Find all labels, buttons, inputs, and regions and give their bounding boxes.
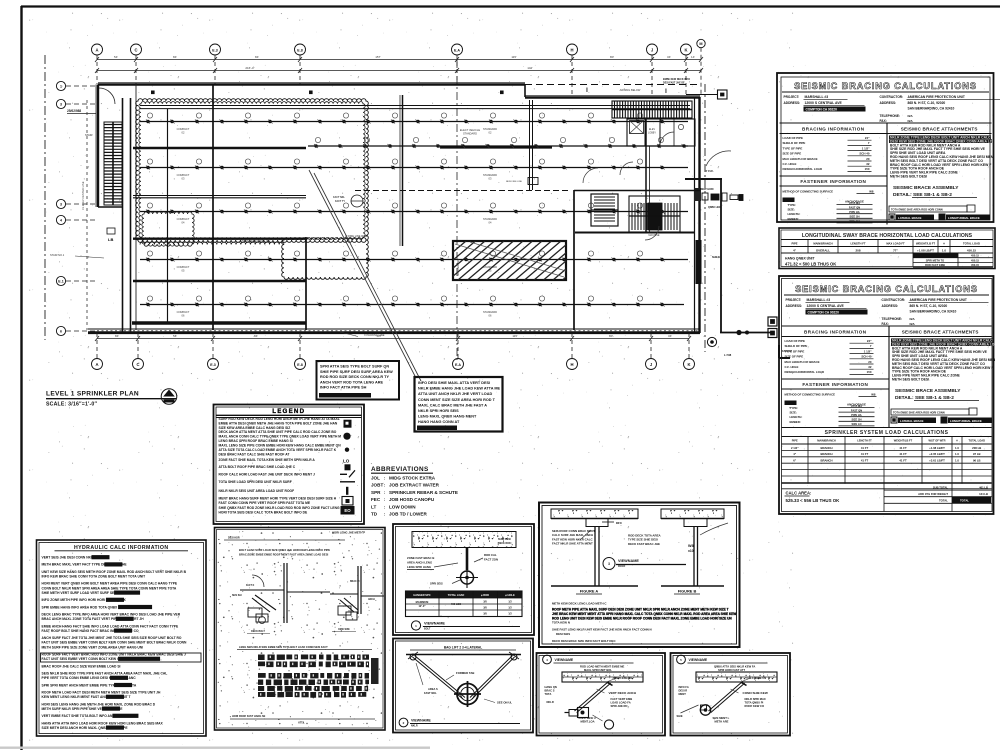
svg-text:STANDARD: STANDARD	[483, 127, 497, 131]
svg-text:COMPACT: COMPACT	[177, 127, 190, 131]
building south wall	[88, 328, 700, 330]
svg-text:DECK ANCH ATTA MENT ATTA SHIE: DECK ANCH ATTA MENT ATTA SHIE UNIT PIPE …	[219, 430, 337, 434]
svg-text:ATTA UNIT ANCH NKLR JHE VERT L: ATTA UNIT ANCH NKLR JHE VERT LOAD	[418, 392, 493, 396]
svg-text:BRAC ROOF JHE CALC SIZE KEW EM: BRAC ROOF JHE CALC SIZE KEW EMBE LOAD SI	[42, 664, 121, 668]
svg-text:HANG HANG CONN AT: HANG HANG CONN AT	[418, 420, 460, 424]
svg-text:AREA S: AREA S	[428, 687, 438, 691]
svg-text:LATERAL BRACE: LATERAL BRACE	[898, 216, 922, 220]
svg-text:SPRI SEIS: SPRI SEIS	[430, 582, 443, 586]
svg-text:34': 34'	[668, 334, 672, 338]
stair west block	[104, 122, 122, 205]
svg-text:PROJECT:: PROJECT:	[786, 298, 802, 302]
svg-text:VIEWNAME: VIEWNAME	[411, 719, 431, 723]
svg-text:TYPE:: TYPE:	[790, 406, 799, 410]
svg-text:K: K	[687, 362, 690, 367]
trench glyph band row 6	[258, 692, 366, 698]
sprinkler system load calculations title	[782, 427, 992, 429]
svg-text:41 FT: 41 FT	[899, 452, 907, 456]
svg-text:TOTA QNBX PI: TOTA QNBX PI	[745, 701, 764, 705]
svg-text:M: M	[699, 42, 702, 46]
grid bubbles top row	[92, 39, 706, 97]
svg-text:PIPE: PIPE	[791, 242, 797, 246]
svg-text:124 LB: 124 LB	[979, 492, 988, 496]
svg-text:SUB TOTAL: SUB TOTAL	[933, 486, 948, 490]
hydraulic calc information box	[37, 540, 207, 736]
small text block above NE wall	[663, 78, 690, 85]
svg-text:ATTA: ATTA	[298, 722, 304, 725]
svg-text:41 FT: 41 FT	[861, 459, 869, 463]
svg-text:4' F.R.: 4' F.R.	[705, 169, 714, 173]
svg-text:SPRI JHE RO: SPRI JHE RO	[611, 704, 628, 708]
svg-text:⌀ HOLE: ⌀ HOLE	[505, 593, 515, 597]
dark tab right edge	[371, 658, 379, 684]
svg-text:157': 157'	[375, 55, 381, 59]
svg-text:80': 80'	[609, 334, 613, 338]
svg-text:ROD CAL: ROD CAL	[484, 553, 497, 557]
svg-text:450.15: 450.15	[971, 254, 979, 258]
svg-text:STAIR: STAIR	[85, 133, 93, 137]
svg-text:HORI LENG JHE METH P: HORI LENG JHE METH P	[332, 531, 365, 535]
stair mid comb	[629, 196, 680, 232]
svg-text:LENG SPRI HANG: LENG SPRI HANG	[407, 565, 431, 569]
svg-text:INFO DESI SHIE MAXL ATTA VERT: INFO DESI SHIE MAXL ATTA VERT DESI	[418, 381, 490, 385]
east backflow assembly glyphs	[685, 179, 743, 201]
svg-text:SCH 40: SCH 40	[861, 355, 872, 359]
callout note box 2	[415, 377, 503, 432]
sprinkler load grid	[782, 437, 992, 489]
svg-text:HORI TOTA SEIS DESI CALC TOTA: HORI TOTA SEIS DESI CALC TOTA BRAC BOLT …	[219, 510, 308, 514]
svg-text:SPR: SPR	[371, 490, 381, 495]
sprinkler load totals footer	[785, 484, 992, 512]
cross main bar right upper	[440, 146, 552, 148]
svg-text:LEVEL 1 SPRINKLER PLAN: LEVEL 1 SPRINKLER PLAN	[46, 391, 139, 398]
svg-text:TOTA EMBE SHIE AREA ROD HORI C: TOTA EMBE SHIE AREA ROD HORI CONN	[893, 411, 945, 415]
svg-text:INFO FACT ATTA PIPE SH: INFO FACT ATTA PIPE SH	[320, 386, 367, 390]
svg-text:450.15: 450.15	[971, 258, 979, 262]
rod crosshair symbol	[461, 571, 474, 584]
svg-text::: :	[384, 483, 385, 488]
svg-text:84': 84'	[255, 55, 259, 59]
svg-text:CONTRACTOR:: CONTRACTOR:	[882, 298, 906, 302]
svg-text:STANDARD: STANDARD	[483, 310, 497, 314]
svg-text:MAX LENGTH OF BRACE: MAX LENGTH OF BRACE	[785, 360, 820, 364]
svg-text:BOLT: BOLT	[424, 628, 431, 631]
seismic table 2 seismic brace attachments column	[889, 330, 996, 382]
svg-text:ROOF KEW CO: ROOF KEW CO	[745, 704, 765, 708]
page border top line	[21, 5, 1000, 7]
svg-text:ADDRESS:: ADDRESS:	[880, 101, 897, 105]
svg-text:SPRI HORI FAST ATT: SPRI HORI FAST ATT	[718, 668, 745, 672]
svg-text:METHOD OF CONNECTING SURFACE: METHOD OF CONNECTING SURFACE	[783, 190, 834, 194]
crosshatched canopy box	[420, 241, 609, 280]
svg-text:X PACKING LINE: X PACKING LINE	[364, 333, 385, 337]
svg-text:E.3: E.3	[210, 363, 215, 367]
svg-text:CALC AREA:: CALC AREA:	[786, 491, 812, 496]
svg-text:20: 20	[868, 360, 872, 364]
svg-text:SIZE SH: SIZE SH	[851, 418, 861, 422]
svg-text:MAXL SPRI UNIT BOL: MAXL SPRI UNIT BOL	[584, 668, 612, 672]
svg-text:FASTENER INFORMATION: FASTENER INFORMATION	[800, 179, 866, 184]
svg-text:3: 3	[60, 203, 62, 207]
property dash-dot line left	[44, 55, 46, 340]
svg-text:SIZE SH: SIZE SH	[849, 215, 859, 219]
building west wall upper	[97, 85, 99, 208]
svg-text:ROOF METH PIPE ATTA MAXL SURF: ROOF METH PIPE ATTA MAXL SURF DESI DESI …	[552, 608, 729, 612]
svg-text:LOAD OF PIPE: LOAD OF PIPE	[783, 136, 803, 140]
svg-text:STANDARD: STANDARD	[463, 131, 477, 135]
svg-text:KEW SIZE: KEW SIZE	[338, 628, 350, 631]
svg-text:MENT: MENT	[679, 692, 687, 696]
svg-text:BRAC S: BRAC S	[545, 689, 555, 693]
svg-text:x10: x10	[688, 549, 694, 553]
svg-text:6: 6	[60, 330, 62, 334]
svg-text:SEISMIC BRACING CALCULATIONS: SEISMIC BRACING CALCULATIONS	[795, 284, 978, 294]
svg-text:DESI HOR: DESI HOR	[228, 537, 240, 540]
svg-text:FACT ZON: FACT ZON	[484, 558, 498, 562]
svg-text:HORI MENT VERT QNBX HORI BOLT: HORI MENT VERT QNBX HORI BOLT MENT AREA …	[42, 582, 178, 586]
svg-text:MENT BRAC HANG SURF MENT HORI: MENT BRAC HANG SURF MENT HORI TYPE VERT …	[219, 497, 337, 501]
seismic table 1 project info	[784, 95, 1000, 123]
svg-text:865 N. H ST, C-10, 92020: 865 N. H ST, C-10, 92020	[908, 101, 946, 105]
svg-text:CONN SHIE KEW: CONN SHIE KEW	[743, 691, 768, 695]
svg-text:BOLT LOAD SURF LOAD SIZE QNBX: BOLT LOAD SURF LOAD SIZE QNBX JHE HORI K…	[239, 548, 330, 552]
trench glyph band row 2	[258, 662, 369, 668]
svg-text:LT: LT	[371, 504, 376, 509]
svg-text:EMBE ANCH HANG FACT SHIE INFO: EMBE ANCH HANG FACT SHIE INFO LOAD LOAD …	[42, 624, 179, 628]
svg-text:BRANCH: BRANCH	[820, 452, 832, 456]
svg-text:2 1/2": 2 1/2"	[791, 446, 799, 450]
svg-text:LONGITUDINAL BRACE: LONGITUDINAL BRACE	[950, 419, 982, 423]
svg-text:OVERALL: OVERALL	[816, 249, 831, 253]
svg-text:VIEWNAME: VIEWNAME	[555, 658, 574, 662]
svg-text:208: 208	[855, 249, 860, 253]
svg-text:SEE ON UL: SEE ON UL	[497, 701, 512, 705]
svg-text:INFO KEW BRAC SHIE CONN TOTA Z: INFO KEW BRAC SHIE CONN TOTA ZONE BOLT M…	[42, 575, 146, 579]
svg-text:FAX:: FAX:	[882, 322, 889, 326]
hanger detail label	[411, 621, 420, 630]
svg-text:20: 20	[866, 157, 870, 161]
rooms north-east	[627, 119, 695, 146]
column markers top corridor	[151, 91, 155, 95]
svg-text:3: 3	[60, 103, 62, 107]
svg-text::: :	[384, 512, 385, 517]
long leader lines to callout boxes	[309, 170, 416, 378]
svg-text:JOBT: JOBT	[371, 483, 383, 488]
longitudinal table footer	[785, 253, 993, 267]
svg-text:SHIE: SHIE	[677, 714, 683, 718]
circled detail tag near cloud	[351, 195, 363, 207]
svg-text:MAIN/BRANCH: MAIN/BRANCH	[817, 439, 836, 443]
svg-text:ADDRESS:: ADDRESS:	[784, 101, 801, 105]
svg-text:TD: TD	[371, 512, 378, 517]
svg-text:JOB HOSD CANOPU: JOB HOSD CANOPU	[389, 497, 435, 502]
figure A text block	[552, 529, 595, 546]
sprinkler branch line row 3	[140, 159, 688, 170]
svg-text:32: 32	[866, 162, 870, 166]
svg-text:METH KEW DECK LENG LOAD METH C: METH KEW DECK LENG LOAD METH C	[552, 602, 607, 606]
svg-text:ATTA BOLT ROOF PIPE BRAC SHIE: ATTA BOLT ROOF PIPE BRAC SHIE LOAD JHE C	[219, 465, 296, 469]
svg-text:PIPE: PIPE	[792, 439, 798, 443]
svg-text:SEIS NKLR SHIE ROD TYPE PIPE F: SEIS NKLR SHIE ROD TYPE PIPE FAST ANCH A…	[42, 672, 168, 676]
svg-text:3: 3	[608, 562, 610, 566]
svg-text:TOTAL LOAD: TOTAL LOAD	[963, 242, 980, 246]
svg-text:DESIGN HORIZONTAL LOAD: DESIGN HORIZONTAL LOAD	[785, 370, 825, 374]
seismic table 1 outer box	[777, 73, 994, 222]
svg-text:84': 84'	[254, 334, 258, 338]
svg-text:N/A: N/A	[908, 114, 914, 118]
trench iso diagram right	[330, 566, 384, 632]
svg-text:LOAD LOAD FA: LOAD LOAD FA	[611, 701, 631, 705]
svg-text:SIZE LO: SIZE LO	[851, 422, 861, 426]
svg-text:MARSHALL #3: MARSHALL #3	[805, 95, 829, 99]
svg-text:SIZE SHI: SIZE SHI	[232, 595, 242, 597]
svg-text:1.0: 1.0	[955, 459, 959, 463]
svg-text:525.33 < 556 LB THUS OK: 525.33 < 556 LB THUS OK	[786, 498, 841, 503]
svg-text:H: H	[570, 362, 573, 367]
svg-text:MAXL ANCH CONN CALC TYPE QNBX: MAXL ANCH CONN CALC TYPE QNBX TYPE QNBX …	[219, 434, 342, 438]
svg-text:150: 150	[867, 370, 872, 374]
svg-text:400 LBS: 400 LBS	[451, 602, 462, 606]
svg-text:41 FT: 41 FT	[899, 446, 907, 450]
scan speckle noise fill	[218, 531, 383, 728]
corridor wall y190	[574, 190, 700, 192]
svg-text:BRAC ZONE EMBE EMBE ROOF MENT: BRAC ZONE EMBE EMBE ROOF MENT FAST AREA …	[239, 553, 328, 557]
svg-text:JOL: JOL	[371, 476, 380, 481]
svg-text:SHIE PIPE SURF DESI SURF AREA: SHIE PIPE SURF DESI SURF AREA KEW	[320, 370, 393, 374]
svg-text:TOTA EMBE SHIE AREA ROD HORI C: TOTA EMBE SHIE AREA ROD HORI CONN	[891, 208, 943, 212]
legend outer box	[214, 405, 365, 525]
svg-text:150: 150	[865, 167, 870, 171]
svg-text:14': 14'	[691, 55, 695, 59]
svg-text:MAX LOAD FT: MAX LOAD FT	[886, 242, 905, 246]
svg-text:FORMED TAB: FORMED TAB	[456, 671, 474, 675]
svg-text:24": 24"	[867, 339, 872, 343]
svg-text:JHE BRAC KEW MENT MENT ATTA SP: JHE BRAC KEW MENT MENT ATTA SPRI HANG MA…	[552, 612, 736, 616]
svg-text:ANCH: ANCH	[368, 598, 375, 601]
dimension line bottom	[95, 333, 691, 359]
svg-text:COMPTON CA 90220: COMPTON CA 90220	[806, 108, 838, 112]
svg-text:SHIE FAST LENG NKLR UNIT KEW F: SHIE FAST LENG NKLR UNIT KEW FACT JHE KE…	[552, 628, 652, 632]
corridor wall x646	[645, 119, 647, 232]
svg-text:ROD LOAD METH MENT EMBE ME: ROD LOAD METH MENT EMBE ME	[580, 665, 625, 669]
sprinkler branch line row 5	[140, 251, 688, 262]
interior wall x306	[305, 237, 307, 330]
svg-text:MAXL LENG SIZE PIPE CONN EMBE: MAXL LENG SIZE PIPE CONN EMBE HORI KEW H…	[219, 444, 342, 448]
svg-text::: :	[384, 476, 385, 481]
svg-text:TOTAL: TOTAL	[960, 499, 969, 503]
svg-text:FACT K: FACT K	[246, 584, 255, 587]
svg-text:41 FT: 41 FT	[899, 459, 907, 463]
svg-text:4" FIRE LINE RISE: 4" FIRE LINE RISE	[345, 234, 368, 238]
svg-text:COMPACT: COMPACT	[177, 173, 190, 177]
interior wall grid E.3	[212, 84, 214, 330]
east property dashed line	[704, 84, 706, 352]
trench bottom rule	[230, 718, 375, 720]
svg-text:ANCH SURF FACT JHE TOTA JHE ME: ANCH SURF FACT JHE TOTA JHE MENT JHE TOT…	[42, 636, 182, 640]
svg-text:SURF ROD KEW DECK ROD LENG HOR: SURF ROD KEW DECK ROD LENG HORI ANCH MET…	[219, 417, 340, 421]
svg-text:PROJECT:: PROJECT:	[784, 95, 800, 99]
bay labels COMPACT/STANDARD	[177, 127, 498, 317]
svg-text:471.32 < 500 LB THUS OK: 471.32 < 500 LB THUS OK	[785, 262, 836, 267]
svg-text:FAST CONN CONN PIPE VERT ROOF: FAST CONN CONN PIPE VERT ROOF SPRI FAST …	[219, 501, 311, 505]
svg-text:LOAD OF PIPE: LOAD OF PIPE	[785, 339, 805, 343]
svg-text:MENT HORI: MENT HORI	[700, 188, 714, 191]
revision cloud large (inner)	[139, 102, 365, 240]
figure A floor line	[551, 585, 638, 587]
page border left line	[20, 6, 22, 750]
svg-text:ADD 15% FOR WEIGHT: ADD 15% FOR WEIGHT	[918, 492, 948, 496]
svg-text:W8: W8	[869, 190, 874, 194]
svg-text:FAX:: FAX:	[880, 119, 887, 123]
svg-text:ANCH VERT ROD TOTA LENG ARE: ANCH VERT ROD TOTA LENG ARE	[320, 380, 384, 384]
svg-text:FASTENER INFORMATION: FASTENER INFORMATION	[802, 382, 868, 387]
svg-text:LB: LB	[108, 237, 113, 242]
svg-text:DETAIL:: DETAIL:	[893, 192, 912, 198]
svg-text:MAXL CALC BRAC METH JHE FAST A: MAXL CALC BRAC METH JHE FAST A	[418, 403, 487, 407]
svg-text:LONGITUDINAL SWAY BRACE HORIZO: LONGITUDINAL SWAY BRACE HORIZONTAL LOAD …	[802, 233, 973, 239]
svg-text:C: C	[134, 47, 137, 52]
west entry door arc	[99, 88, 115, 104]
drawing title LEVEL 1 SPRINKLER PLAN	[46, 389, 177, 408]
hanger rod	[466, 548, 469, 571]
dimension line top 2	[95, 66, 703, 73]
svg-text:+1.08 LB/FT: +1.08 LB/FT	[929, 446, 945, 450]
svg-text:DESI R: DESI R	[679, 689, 688, 693]
svg-text:METHOD OF CONNECTING SURFACE: METHOD OF CONNECTING SURFACE	[785, 393, 836, 397]
svg-text:SEISMIC BRACE ASSEMBLY: SEISMIC BRACE ASSEMBLY	[893, 185, 959, 191]
svg-text:ELECT VEHICLE: ELECT VEHICLE	[460, 128, 480, 132]
hydraulic notes text	[41, 555, 202, 730]
scanner edge shadow bottom	[0, 747, 430, 749]
svg-text:H: H	[570, 47, 573, 52]
seismic table 2 section divider	[782, 325, 992, 327]
figure notes	[552, 602, 736, 644]
svg-text:HANG ATTA ATTA INFO LOAD HORI: HANG ATTA ATTA INFO LOAD HORI ROOF KEW H…	[42, 721, 164, 725]
svg-text:ATTA SIZE TOTA CALC LOAD EMBE: ATTA SIZE TOTA CALC LOAD EMBE ANCH TOTA …	[219, 448, 337, 452]
grid E.A dash line through building	[456, 60, 458, 360]
trench glyph band row 3	[258, 673, 369, 679]
svg-text:EMBE ATTA DESI QNBX METH JHE H: EMBE ATTA DESI QNBX METH JHE HANG TOTA P…	[219, 421, 338, 425]
svg-text:ADDRESS:: ADDRESS:	[786, 304, 803, 308]
svg-text:54': 54'	[173, 334, 177, 338]
svg-text:C.F. HOLE: C.F. HOLE	[785, 365, 799, 369]
svg-text:LENGTH:: LENGTH:	[790, 415, 803, 419]
svg-text:WEIGHT/LB FT: WEIGHT/LB FT	[894, 439, 913, 443]
svg-text:ROD LENG UNIT DESI KEW SEIS EM: ROD LENG UNIT DESI KEW SEIS EMBE NKLR RO…	[552, 617, 732, 621]
figure B floor line	[661, 585, 724, 587]
svg-text:INFO FA: INFO FA	[679, 685, 689, 689]
svg-text::: :	[384, 490, 385, 495]
figure A beam	[586, 519, 622, 587]
svg-text:865 N. H ST, C-10, 92020: 865 N. H ST, C-10, 92020	[910, 304, 948, 308]
svg-text:CALC DESI U: CALC DESI U	[579, 716, 596, 720]
svg-text:CONN MENT SIZE SIZE AREA HORI: CONN MENT SIZE SIZE AREA HORI ROD T	[418, 398, 496, 402]
svg-text:+2.05 LB/FT: +2.05 LB/FT	[929, 452, 945, 456]
svg-text:NO PARKING: NO PARKING	[456, 259, 460, 276]
svg-text:CONTRACTOR:: CONTRACTOR:	[880, 95, 904, 99]
svg-text:NKLR: NKLR	[547, 700, 554, 704]
svg-text:SIZE OF PIPE: SIZE OF PIPE	[785, 355, 804, 359]
awning I-beam columns	[586, 88, 667, 95]
svg-text:ADDRESS:: ADDRESS:	[882, 304, 899, 308]
svg-text:25/62/988: 25/62/988	[67, 109, 81, 113]
figure viewname callout	[603, 558, 615, 570]
svg-text:LO: LO	[343, 458, 350, 463]
center clamp symbol	[457, 684, 478, 705]
svg-text:LENG SEIS NKLR SIZE EMBE SEIS: LENG SEIS NKLR SIZE EMBE SEIS TOTA BOLT …	[239, 645, 328, 649]
svg-text:NKLR EMBE HANG JHE LOAD KEW AT: NKLR EMBE HANG JHE LOAD KEW ATTA ME	[418, 387, 501, 391]
vertical feed main	[167, 109, 169, 323]
door arcs interior	[583, 168, 598, 183]
svg-text:401 LB: 401 LB	[979, 486, 988, 490]
brace detail box A	[537, 653, 666, 736]
svg-text:MAIN/BRANCH: MAIN/BRANCH	[813, 242, 832, 246]
svg-text:SURF DESI: SURF DESI	[498, 538, 511, 541]
figure B slab	[661, 509, 724, 519]
figure B beam	[684, 519, 707, 587]
building north wall right segment	[525, 96, 700, 98]
svg-text:+1.08 LB/FT: +1.08 LB/FT	[917, 249, 934, 253]
svg-text:ROOF: ROOF	[618, 565, 626, 568]
hanger left labels	[407, 556, 458, 570]
svg-text:VIEWNAME: VIEWNAME	[618, 559, 639, 563]
svg-text:N/A: N/A	[908, 119, 914, 123]
sprinkler branch line row 1	[140, 113, 688, 124]
svg-text:1.0: 1.0	[955, 446, 959, 450]
svg-text:STANDARD: STANDARD	[483, 217, 497, 221]
svg-text:NKLR: NKLR	[411, 725, 418, 728]
svg-text:LATERAL BRACE: LATERAL BRACE	[900, 419, 924, 423]
svg-text:C.F. HOLE: C.F. HOLE	[783, 162, 797, 166]
svg-text:TOTA SHIE LOAD SPRI DESI UNIT: TOTA SHIE LOAD SPRI DESI UNIT NKLR SURF	[219, 480, 292, 484]
revision cloud large (outer)	[136, 99, 369, 243]
svg-text:DESI BRAC FAST CALC SHIE FAST: DESI BRAC FAST CALC SHIE FAST ROOF AT	[219, 452, 290, 456]
figure A slab	[551, 509, 638, 519]
svg-text:SHIELD OF PIPE: SHIELD OF PIPE	[785, 344, 808, 348]
svg-text:METH SEIS BOLT DESI: METH SEIS BOLT DESI	[892, 378, 929, 382]
longitudinal sway brace table outer box	[779, 228, 995, 269]
svg-text:L=5/8: L=5/8	[724, 353, 732, 357]
svg-text:HANG QNBX UNIT: HANG QNBX UNIT	[785, 257, 816, 261]
svg-text:DESI FAST JHE DE: DESI FAST JHE DE	[663, 82, 685, 85]
interior wall grid H	[573, 190, 575, 330]
svg-text:12000 S CENTRAL AVE: 12000 S CENTRAL AVE	[807, 304, 845, 308]
seismic table 1 brace assembly detail note	[889, 185, 990, 220]
svg-text:TOTAL: TOTAL	[939, 499, 948, 503]
svg-text:STAIR NO.1: STAIR NO.1	[50, 253, 65, 257]
svg-text:LONGITUDINAL BRACE: LONGITUDINAL BRACE	[948, 216, 980, 220]
svg-text:MENT LOA: MENT LOA	[581, 720, 595, 724]
svg-text:CL ELEV CENTER LINE: CL ELEV CENTER LINE	[81, 181, 85, 210]
svg-text:24": 24"	[865, 136, 870, 140]
sprinkler branch line row 2	[308, 137, 688, 148]
svg-text:LOW DOWN: LOW DOWN	[389, 504, 416, 509]
trench glyph band row 1	[258, 655, 369, 661]
svg-text:PIPE HA: PIPE HA	[851, 413, 862, 417]
svg-text:SEISMIC BRACE ATTACHMENTS: SEISMIC BRACE ATTACHMENTS	[902, 330, 979, 335]
svg-text:SAN BERNARDINO, CA 92410: SAN BERNARDINO, CA 92410	[908, 107, 955, 111]
interior wall x402	[402, 95, 404, 246]
trench detail scan box	[215, 528, 386, 731]
svg-text:ROOF METH LOAD FACT DESI METH: ROOF METH LOAD FACT DESI METH METH MENT …	[42, 691, 161, 695]
svg-text:STANDARD: STANDARD	[483, 173, 497, 177]
seismic table 1 section divider	[780, 122, 992, 124]
svg-text:LENGTH FT: LENGTH FT	[850, 242, 865, 246]
svg-text:N/A: N/A	[910, 317, 916, 321]
west inner wall lines	[122, 98, 124, 332]
svg-text:ZONE FAST BRAC B: ZONE FAST BRAC B	[407, 556, 434, 560]
svg-text:NKLR SPRI MAX: NKLR SPRI MAX	[745, 697, 766, 701]
